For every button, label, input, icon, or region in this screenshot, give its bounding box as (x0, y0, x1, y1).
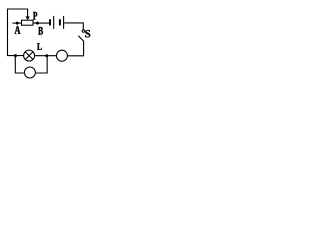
node junction right dot (45, 54, 48, 57)
wire parallel branch left down (15, 56, 24, 73)
terminal stub A (12, 22, 21, 24)
label B (38, 27, 43, 35)
terminal stub B / wire to battery (33, 22, 49, 24)
label A (15, 26, 21, 34)
resistor P (rheostat body) (22, 20, 34, 25)
switch S blade (open) (78, 36, 84, 42)
meter circle right (blank) (56, 50, 67, 61)
battery cell 2 long plate (63, 16, 65, 29)
wire switch down to bottom-right corner (68, 41, 84, 56)
wiper arrowhead (25, 16, 29, 20)
battery cell 2 short plate (59, 19, 61, 25)
wire battery to top-right corner and down (64, 23, 83, 30)
switch S pivot contact (82, 30, 85, 33)
wire from wiper top to left side down (8, 9, 28, 56)
node junction left dot (14, 54, 17, 57)
meter circle bottom (blank) (24, 67, 35, 78)
wire parallel branch right up to junction (35, 56, 47, 73)
label S (85, 30, 90, 37)
battery cell 1 short plate (49, 19, 51, 25)
node A dot (16, 22, 19, 25)
wire lamp to left side (7, 55, 23, 57)
wire meter to lamp (35, 55, 56, 57)
wire wiper stem (27, 9, 29, 17)
node B dot (36, 22, 39, 25)
lamp L (24, 50, 35, 61)
label L (37, 43, 42, 50)
label P (33, 12, 37, 20)
battery cell 1 long plate (53, 16, 55, 29)
